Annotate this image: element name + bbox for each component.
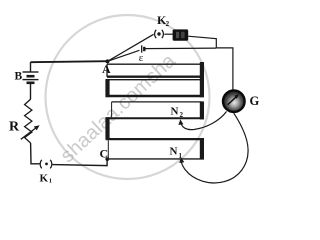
cell epsilon xyxy=(141,45,143,52)
wire junction to G xyxy=(216,48,233,90)
svg-text:R: R xyxy=(9,120,20,135)
svg-text:C: C xyxy=(100,147,109,161)
wire box to corner xyxy=(188,36,216,48)
svg-text:shaalaa.comsha: shaalaa.comsha xyxy=(56,49,180,167)
svg-text:1: 1 xyxy=(49,178,52,185)
jockey arc to N2 xyxy=(181,112,227,130)
wire battery to rheostat xyxy=(30,84,32,99)
svg-text:N: N xyxy=(171,106,179,118)
wire rheostat down to corner xyxy=(31,143,40,164)
potentiometer wire bar5 xyxy=(107,141,204,159)
svg-text:A: A xyxy=(102,62,111,76)
svg-text:B: B xyxy=(15,71,23,83)
wire top from battery to A xyxy=(31,61,108,62)
potentiometer wire bar2 xyxy=(105,79,204,97)
watermark circle xyxy=(46,15,210,179)
svg-text:G: G xyxy=(250,94,260,108)
right end cap bar5 xyxy=(200,139,204,160)
jockey arc to N1 xyxy=(181,113,248,183)
wire K2 to box xyxy=(164,33,172,35)
right end cap bar3 xyxy=(200,101,204,119)
potentiometer wire bar4 xyxy=(105,117,204,139)
right end cap bars1-2 xyxy=(200,62,204,97)
svg-text:N: N xyxy=(170,146,178,158)
rheostat R zigzag xyxy=(25,99,32,143)
key K1 xyxy=(40,160,52,169)
wire K1 to C xyxy=(52,159,107,165)
svg-text:ε: ε xyxy=(139,52,144,64)
node C junction dot xyxy=(105,157,109,161)
resistance box xyxy=(173,29,189,40)
wire A to K2 xyxy=(108,34,154,61)
potentiometer wire bar3 xyxy=(106,102,204,118)
wire cell to junction xyxy=(144,47,216,50)
galvanometer G xyxy=(223,90,245,112)
node A junction dot xyxy=(106,59,110,63)
wire A to cell xyxy=(108,50,140,61)
wire battery drop xyxy=(30,62,32,71)
svg-text:2: 2 xyxy=(166,20,170,28)
potentiometer wire bar1 xyxy=(107,64,204,77)
battery B xyxy=(23,72,39,83)
rheostat arrow xyxy=(21,127,37,139)
key K2 xyxy=(155,30,164,38)
svg-text:2: 2 xyxy=(180,111,184,119)
svg-text:K: K xyxy=(40,173,49,185)
